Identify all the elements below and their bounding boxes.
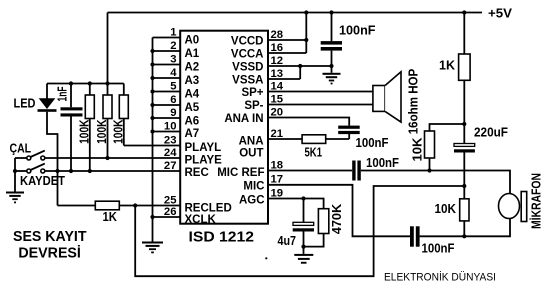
svg-text:2: 2 (170, 40, 176, 52)
wire ANA OUT pin21 (268, 138, 302, 140)
wire VSSD pin12 (268, 65, 332, 67)
svg-text:26: 26 (164, 206, 177, 218)
svg-text:5K1: 5K1 (305, 145, 323, 159)
pin label VSSD (232, 62, 263, 74)
svg-text:15: 15 (271, 93, 284, 105)
pin label SP- (244, 100, 263, 112)
switch KAYDET (15, 164, 45, 173)
label 1K R7 (439, 59, 455, 73)
wire pin9 stub (153, 117, 181, 119)
ground AGC (294, 247, 313, 264)
label KAYDET (20, 174, 65, 188)
resistor R6 470K (304, 209, 329, 247)
svg-text:220uF: 220uF (474, 126, 508, 140)
pin 19 number (271, 187, 284, 199)
label LED (14, 97, 36, 111)
wire to 10K left (430, 124, 465, 131)
label CAL (10, 142, 32, 156)
svg-text:27: 27 (164, 160, 177, 172)
resistor R3 100K (119, 84, 128, 146)
pin label VCCA (231, 49, 264, 61)
junction REC at LED lead (55, 169, 59, 173)
+5V rail wire (108, 12, 483, 14)
pin label XCLK (185, 214, 217, 226)
wire pin26 stub (153, 216, 181, 218)
junction top-left at 1nF (69, 81, 73, 85)
svg-text:13: 13 (271, 68, 284, 80)
svg-text:SES KAYIT: SES KAYIT (13, 228, 87, 245)
svg-text:100K: 100K (111, 120, 125, 144)
svg-text:3: 3 (170, 53, 176, 65)
label 16ohm HOP (407, 69, 421, 135)
wire AGC pin19 (268, 199, 324, 209)
label 100nF C2 (339, 24, 376, 38)
svg-text:6: 6 (170, 94, 176, 106)
junction on rail at 100nF riser (329, 10, 333, 14)
svg-text:21: 21 (271, 128, 284, 140)
label 100K R3 (111, 120, 125, 144)
junction 4u7 bottom (301, 245, 305, 249)
label 100K R2 (95, 119, 109, 143)
junction top-left at R1 (88, 81, 92, 85)
capacitor C4 100nF (352, 161, 361, 181)
svg-text:10K: 10K (410, 138, 424, 162)
pin 20 number (271, 106, 284, 118)
wire VCCA pin16 (268, 52, 306, 54)
svg-text:100K: 100K (95, 119, 109, 143)
svg-text:PLAYL: PLAYL (185, 142, 222, 154)
pin 18 number (271, 159, 284, 171)
svg-text:9: 9 (170, 107, 176, 119)
pin label A0 (185, 35, 200, 47)
resistor R7 1K (459, 13, 471, 144)
pin 26 number (164, 206, 177, 218)
pin 25 number (164, 194, 177, 206)
pin label AGC (239, 194, 265, 206)
svg-text:1K: 1K (439, 59, 455, 73)
pin 23 number (164, 134, 177, 146)
svg-text:24: 24 (164, 147, 177, 159)
junction MIC REF at 10K (427, 168, 431, 172)
pin label A2 (185, 62, 200, 74)
svg-text:A7: A7 (185, 128, 200, 140)
junction bus pin4 (150, 76, 154, 80)
wire PLAYE net (45, 157, 180, 159)
pin 28 number (271, 29, 284, 41)
svg-text:DEVRESİ: DEVRESİ (18, 245, 81, 262)
pin label A7 (185, 128, 200, 140)
svg-text:MIC REF: MIC REF (217, 167, 264, 179)
svg-text:OUT: OUT (239, 148, 263, 160)
wire MIC pin17 (268, 185, 410, 237)
pin label MIC REF (217, 167, 264, 179)
label 100K R1 (78, 119, 92, 143)
junction REC at 1nF (69, 169, 73, 173)
svg-text:ANA IN: ANA IN (224, 113, 263, 125)
svg-text:18: 18 (271, 159, 284, 171)
IC U1 ISD 1212 body (180, 31, 268, 224)
junction bus pin6 (150, 103, 154, 107)
svg-text:28: 28 (271, 29, 284, 41)
svg-text:ÇAL: ÇAL (10, 142, 32, 156)
svg-text:100K: 100K (78, 119, 92, 143)
wire pin4 stub (153, 77, 181, 79)
wire VCC riser (305, 13, 307, 54)
svg-text:4: 4 (170, 67, 177, 79)
wire switch bus left (14, 158, 16, 192)
label 470K (330, 204, 344, 235)
pin 16 number (271, 42, 284, 54)
wire pin5 stub (153, 91, 181, 93)
pin label A1 (185, 48, 200, 60)
wire VSS riser (299, 66, 301, 79)
label 10K R8 (410, 138, 424, 162)
label 10K R9 (435, 202, 457, 216)
pin label PLAYE (185, 154, 223, 166)
ground XCLK (142, 242, 163, 254)
svg-text:100nF: 100nF (356, 136, 389, 150)
svg-text:A0: A0 (185, 35, 200, 47)
pin label A5 (185, 102, 200, 114)
svg-text:VCCD: VCCD (231, 36, 264, 48)
wire SP+ pin14 (268, 91, 373, 93)
pin 27 number (164, 160, 177, 172)
svg-text:A6: A6 (185, 116, 200, 128)
pin label REC (185, 167, 209, 179)
junction top-left at riser (105, 81, 109, 85)
svg-text:ISD 1212: ISD 1212 (189, 229, 255, 246)
resistor R5 5K1 (302, 135, 326, 144)
svg-text:23: 23 (164, 134, 177, 146)
wire VCCD pin28 (268, 39, 306, 41)
wire RECLED left (58, 205, 96, 207)
pin 2 number (170, 40, 176, 52)
svg-text:25: 25 (164, 194, 177, 206)
pin label RECLED (185, 203, 232, 215)
svg-text:SP+: SP+ (241, 87, 263, 99)
junction bus pin3 (150, 62, 154, 66)
junction VSS (298, 64, 302, 68)
wire pin3 stub (153, 64, 181, 66)
wire pin2 stub (153, 50, 181, 52)
pin label MIC (243, 181, 264, 193)
svg-text:20: 20 (271, 106, 284, 118)
svg-text:MİKRAFON: MİKRAFON (529, 173, 544, 229)
wire C5 to microphone (420, 219, 510, 237)
svg-text:5: 5 (170, 80, 176, 92)
label 220uF (474, 126, 508, 140)
pin 3 number (170, 53, 176, 65)
resistor R4 1K (95, 201, 119, 210)
pin label PLAYL (185, 142, 222, 154)
label ELEKTRONIK DUNYASI (384, 271, 496, 284)
junction 220uF bottom (462, 184, 466, 188)
pin 5 number (170, 80, 176, 92)
stray mark (265, 257, 267, 259)
svg-text:12: 12 (271, 55, 284, 67)
wire VSSA pin13 (268, 78, 300, 80)
svg-text:A3: A3 (185, 75, 200, 87)
wire bus to ground (152, 217, 154, 242)
node +5V (488, 7, 513, 21)
ground C2 (323, 73, 341, 85)
svg-text:KAYDET: KAYDET (20, 174, 65, 188)
wire SP- pin15 (268, 104, 373, 106)
junction PLAYE at R2 (105, 156, 109, 160)
junction mic bottom node (462, 234, 466, 238)
svg-text:1nF: 1nF (56, 86, 70, 101)
junction RECLED (133, 203, 137, 207)
svg-text:100nF: 100nF (422, 242, 455, 256)
svg-text:ELEKTRONİK DÜNYASI: ELEKTRONİK DÜNYASI (384, 271, 496, 284)
svg-text:A1: A1 (185, 48, 200, 60)
label MIKRAFON (529, 173, 544, 229)
switch CAL (15, 151, 45, 160)
svg-text:14: 14 (271, 80, 284, 92)
svg-text:10K: 10K (435, 202, 457, 216)
resistor R1 100K (85, 84, 94, 172)
pin 1 number (170, 26, 176, 38)
svg-text:1K: 1K (103, 210, 118, 224)
junction on rail at 1K riser (462, 10, 466, 14)
svg-text:470K: 470K (330, 204, 344, 235)
pin label OUT (239, 148, 263, 160)
wire MIC REF to microphone (361, 171, 510, 194)
svg-text:VCCA: VCCA (231, 49, 264, 61)
wire pin6 stub (153, 104, 181, 106)
svg-text:16: 16 (271, 42, 284, 54)
svg-text:AGC: AGC (239, 194, 265, 206)
pin label ANA (239, 136, 264, 148)
junction 1K bottom (462, 122, 466, 126)
pin label A4 (185, 89, 200, 101)
svg-text:RECLED: RECLED (185, 203, 232, 215)
pin 21 number (271, 128, 284, 140)
svg-text:LED: LED (14, 97, 36, 111)
ground switches (6, 192, 24, 204)
junction AGC at 4u7 (301, 196, 305, 200)
svg-text:SP-: SP- (244, 100, 263, 112)
svg-text:17: 17 (271, 174, 284, 186)
wire RECLED right (119, 205, 180, 207)
junction bus pin9 (150, 116, 154, 120)
svg-text:VSSA: VSSA (232, 75, 263, 87)
resistor R2 100K (103, 95, 112, 158)
wire MIC REF pin18 (268, 170, 352, 172)
wire PLAYL net (124, 145, 180, 147)
resistor R8 10K (425, 131, 435, 171)
pin 17 number (271, 174, 284, 186)
svg-text:16ohm HOP: 16ohm HOP (407, 69, 421, 135)
junction REC at R1 (88, 169, 92, 173)
label SES KAYIT DEVRESI (13, 228, 87, 262)
wire RECLED to 220uF node (135, 186, 464, 276)
wire rail riser left (107, 13, 109, 96)
pin 24 number (164, 147, 177, 159)
capacitor C5 100nF (410, 226, 420, 246)
pin 15 number (271, 93, 284, 105)
svg-text:1: 1 (170, 26, 176, 38)
capacitor C6 4u7 (293, 199, 314, 247)
wire pin1 stub (153, 37, 181, 39)
junction bus pin26 (150, 215, 154, 219)
label 1K R4 (103, 210, 118, 224)
pin label ANA IN (224, 113, 263, 125)
pin label SP+ (241, 87, 263, 99)
pin 9 number (170, 107, 176, 119)
pin 4 number (170, 67, 177, 79)
pin label VSSA (232, 75, 263, 87)
pin 6 number (170, 94, 176, 106)
pin label A3 (185, 75, 200, 87)
svg-text:A4: A4 (185, 89, 200, 101)
svg-text:100nF: 100nF (366, 156, 399, 170)
junction bus pin2 (150, 49, 154, 53)
svg-text:+5V: +5V (488, 7, 513, 21)
wire pin10 stub (153, 131, 181, 133)
pin 14 number (271, 80, 284, 92)
svg-text:ANA: ANA (239, 136, 264, 148)
label ISD 1212 (189, 229, 255, 246)
wire top-left node (47, 83, 124, 85)
pin label A6 (185, 116, 200, 128)
svg-text:PLAYE: PLAYE (185, 154, 223, 166)
resistor R9 10K (460, 199, 469, 237)
junction bus pin10 (150, 129, 154, 133)
svg-text:100nF: 100nF (339, 24, 376, 38)
label 1nF (56, 86, 70, 101)
junction bus pin5 (150, 89, 154, 93)
junction switch bus (13, 169, 17, 173)
label 100nF C5 (422, 242, 455, 256)
capacitor C2 100nF decoupling (321, 13, 342, 73)
label 4u7 (278, 234, 297, 248)
microphone MK1 (499, 192, 527, 222)
svg-text:MIC: MIC (243, 181, 264, 193)
junction VSS at ground riser (329, 64, 333, 68)
speaker LS1 (373, 72, 401, 122)
svg-text:A5: A5 (185, 102, 200, 114)
svg-text:REC: REC (185, 167, 209, 179)
junction VCC pin28 (304, 38, 308, 42)
svg-text:XCLK: XCLK (185, 214, 217, 226)
wire REC net (45, 170, 180, 172)
junction on rail at VCC riser (304, 10, 308, 14)
capacitor C1 1nF (61, 84, 83, 172)
capacitor C3 100nF (338, 126, 360, 139)
svg-text:19: 19 (271, 187, 284, 199)
wire address bus (152, 38, 154, 218)
label 5K1 (305, 145, 323, 159)
wire 5K1 to C3 (326, 138, 350, 140)
svg-text:VSSD: VSSD (232, 62, 263, 74)
label 100nF C3 (356, 136, 389, 150)
svg-text:10: 10 (164, 120, 177, 132)
label 100nF C4 (366, 156, 399, 170)
pin 10 number (164, 120, 177, 132)
capacitor C7 220uF (454, 144, 475, 199)
wire ANA IN pin20 (268, 118, 349, 126)
svg-text:4u7: 4u7 (278, 234, 297, 248)
pin label VCCD (231, 36, 264, 48)
svg-text:A2: A2 (185, 62, 200, 74)
pin 12 number (271, 55, 284, 67)
pin 13 number (271, 68, 284, 80)
LED D1 (38, 84, 58, 206)
